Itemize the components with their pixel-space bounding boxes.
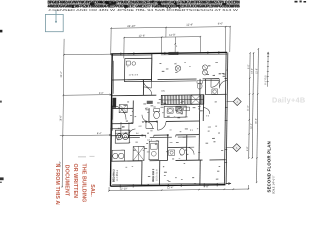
svg-text:8'-1" CLG: 8'-1" CLG — [265, 75, 267, 85]
svg-text:11'-6": 11'-6" — [248, 105, 250, 111]
svg-text:THE BUILDING: THE BUILDING — [80, 164, 86, 203]
svg-text:BED RM 3: BED RM 3 — [151, 168, 155, 181]
svg-text:10-2 x 11-8: 10-2 x 11-8 — [156, 169, 158, 181]
svg-text:SECOND FLOOR PLAN: SECOND FLOOR PLAN — [266, 141, 271, 192]
svg-text:OR WRITTEN: OR WRITTEN — [72, 164, 78, 199]
svg-text:W D: W D — [118, 128, 122, 130]
svg-text:12'-8 x 5-0: 12'-8 x 5-0 — [129, 74, 139, 76]
svg-text:BED RM 2: BED RM 2 — [112, 169, 116, 182]
svg-text:9'-2": 9'-2" — [248, 64, 250, 69]
svg-text:d: d — [127, 66, 128, 68]
svg-text:J.GENSED AND OR 48N W JPSNE: J.GENSED AND OR 48N W JPSNE HBL 94 5AB R… — [48, 8, 238, 12]
svg-text:22'-4": 22'-4" — [60, 71, 63, 77]
svg-text:14'-2": 14'-2" — [252, 68, 254, 74]
svg-text:DOCUMENT: DOCUMENT — [63, 165, 69, 197]
svg-text:24'-10": 24'-10" — [127, 24, 135, 28]
svg-text:N FROM THIS AND THE: N FROM THIS AND THE — [54, 164, 60, 206]
svg-text:SAL.: SAL. — [89, 184, 95, 197]
svg-text:DN: DN — [161, 91, 165, 93]
svg-text:11'-8": 11'-8" — [169, 33, 176, 37]
svg-text:9'-0": 9'-0" — [99, 92, 104, 95]
svg-text:12'-8": 12'-8" — [256, 68, 258, 74]
svg-text:8'-4": 8'-4" — [97, 132, 102, 135]
svg-text:6'-0": 6'-0" — [218, 22, 223, 26]
svg-text:Daily+4B: Daily+4B — [272, 96, 305, 105]
svg-text:10'-2: 10'-2 — [147, 140, 153, 142]
svg-text:SCALE: 1/4"=1'-0": SCALE: 1/4"=1'-0" — [272, 175, 275, 194]
svg-text:6'-8": 6'-8" — [247, 146, 249, 151]
svg-text:5-0: 5-0 — [136, 133, 139, 135]
svg-text:12'-4": 12'-4" — [186, 23, 193, 27]
svg-text:B2: B2 — [150, 130, 152, 132]
svg-text:18'-6": 18'-6" — [59, 115, 62, 121]
svg-text:12'-10": 12'-10" — [120, 187, 128, 190]
svg-text:16'-0": 16'-0" — [251, 123, 253, 129]
svg-text:12'-6": 12'-6" — [139, 34, 146, 38]
svg-text:30'-4": 30'-4" — [256, 118, 258, 124]
